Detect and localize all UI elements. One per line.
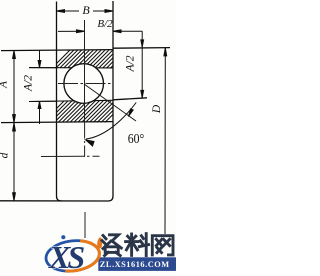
svg-text:D: D: [151, 104, 163, 114]
svg-text:d: d: [0, 152, 11, 158]
svg-text:B: B: [82, 3, 90, 17]
svg-text:ZL.XS1616.COM: ZL.XS1616.COM: [100, 260, 170, 269]
svg-text:A/2: A/2: [125, 55, 137, 72]
svg-text:B/2: B/2: [97, 18, 113, 30]
svg-text:A: A: [0, 81, 10, 89]
svg-text:XS: XS: [48, 239, 84, 275]
svg-text:60°: 60°: [128, 132, 145, 147]
svg-text:A/2: A/2: [23, 75, 35, 92]
